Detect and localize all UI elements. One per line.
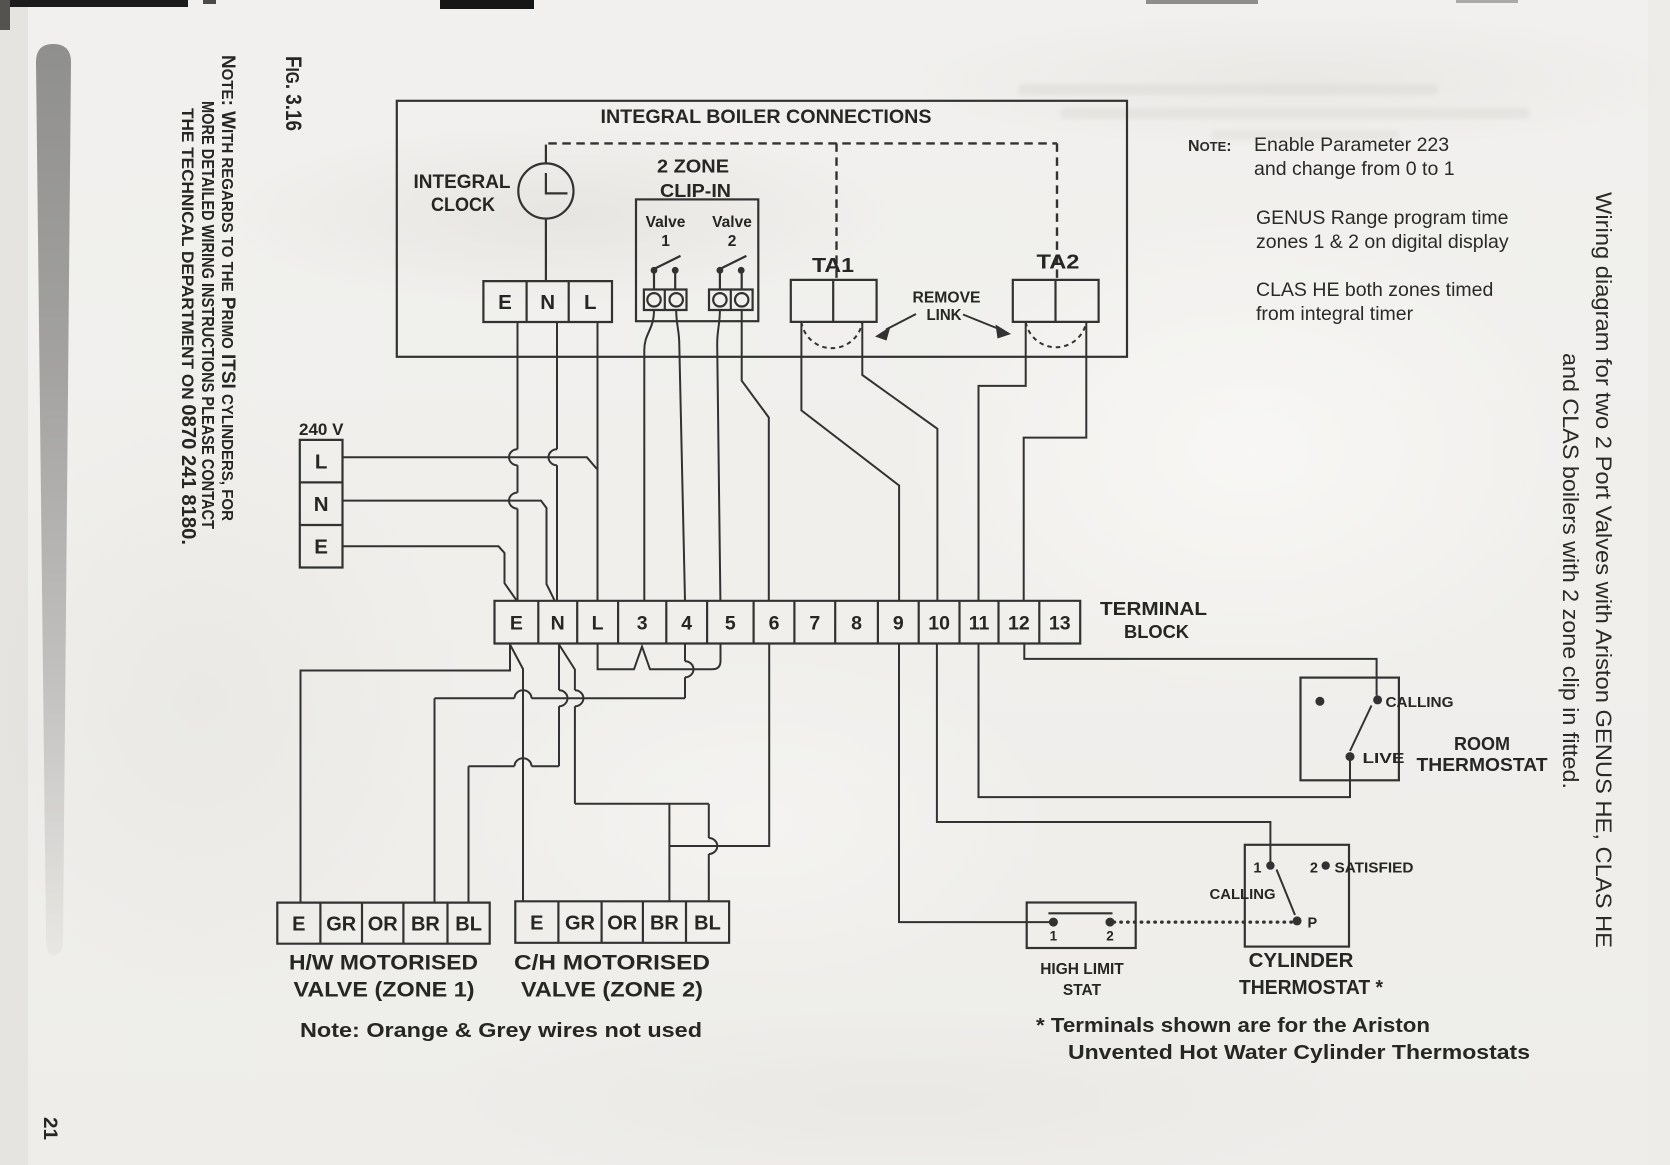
clock hands (546, 173, 568, 193)
svg-text:GR: GR (565, 913, 596, 935)
svg-text:10: 10 (928, 613, 950, 635)
svg-text:CLIP-IN: CLIP-IN (660, 181, 731, 201)
svg-text:Wiring diagram for two 2 Port: Wiring diagram for two 2 Port Valves wit… (1591, 192, 1616, 948)
scan smudge top edge mid (440, 0, 534, 9)
svg-text:Enable Parameter 223: Enable Parameter 223 (1254, 134, 1449, 156)
wire valve2 left to terminal 5 (717, 310, 720, 601)
2 zone clip-in box (636, 199, 758, 321)
svg-text:9: 9 (893, 613, 904, 635)
svg-text:TERMINAL: TERMINAL (1100, 599, 1207, 619)
svg-text:TA2: TA2 (1037, 252, 1080, 274)
wire 240V N to terminal N (343, 501, 555, 601)
svg-text:NOTE: WITH REGARDS TO THE PRI: NOTE: WITH REGARDS TO THE PRIMO ITSI CYL… (217, 55, 239, 521)
svg-text:and CLAS boilers with 2 zone c: and CLAS boilers with 2 zone clip in fit… (1558, 353, 1583, 789)
wire CH valve BR riser (668, 804, 670, 901)
hop arc N wire over BR run (559, 690, 568, 706)
valve 2 switch dots (717, 267, 724, 274)
svg-text:3: 3 (637, 613, 648, 635)
svg-text:FIG. 3.16: FIG. 3.16 (281, 56, 306, 131)
room stat switch arm (1350, 706, 1372, 752)
svg-text:NOTE:: NOTE: (1188, 138, 1232, 155)
high limit stat box (1027, 903, 1136, 949)
valve 1 switch arm (655, 256, 681, 269)
svg-text:CALLING: CALLING (1210, 887, 1276, 903)
wire terminal 10 to cylinder stat 1 (937, 645, 1271, 866)
svg-text:2: 2 (1106, 929, 1114, 944)
hop bump BL run over E wire (515, 758, 532, 766)
dashed drop to TA2 (1056, 143, 1058, 280)
scan smudge top edge small (203, 0, 216, 4)
valve 1 switch dots (651, 267, 658, 274)
svg-text:GR: GR (326, 914, 357, 936)
hop arc 4 wire over jumper (685, 661, 694, 677)
TA1 terminal box (791, 280, 877, 322)
svg-text:HIGH LIMIT: HIGH LIMIT (1040, 961, 1124, 978)
boiler E N L terminal box (483, 281, 612, 322)
svg-text:E: E (498, 291, 512, 314)
svg-text:N: N (540, 291, 555, 314)
svg-text:13: 13 (1049, 613, 1071, 635)
dashed link arc under TA2 (1026, 322, 1087, 347)
svg-text:VALVE (ZONE 1): VALVE (ZONE 1) (294, 978, 475, 1002)
scan smudge top edge right (1146, 0, 1258, 4)
cylinder stat dot 2 (1322, 861, 1330, 869)
wire terminal N to HW valve BL (469, 645, 560, 903)
svg-text:8: 8 (851, 613, 862, 635)
svg-text:INTEGRAL: INTEGRAL (414, 171, 511, 193)
room thermostat box (1301, 678, 1399, 781)
dotted wire high limit stat to cylinder stat P (1114, 920, 1292, 923)
svg-text:SATISFIED: SATISFIED (1335, 861, 1414, 877)
svg-text:Valve: Valve (646, 214, 686, 231)
svg-text:LINK: LINK (927, 307, 962, 324)
svg-text:21: 21 (39, 1117, 60, 1140)
hop bump BR run over E wire (515, 690, 532, 698)
wire TA2 right to terminal 12 (1024, 322, 1087, 601)
svg-text:ROOM: ROOM (1454, 734, 1510, 754)
svg-text:CALLING: CALLING (1386, 695, 1454, 711)
valve 1 switch stubs (654, 274, 675, 291)
svg-text:zones 1 & 2 on digital display: zones 1 & 2 on digital display (1256, 231, 1509, 253)
svg-text:12: 12 (1008, 613, 1030, 635)
cylinder stat switch arm (1277, 870, 1296, 916)
svg-text:C/H MOTORISED: C/H MOTORISED (514, 951, 710, 975)
high limit stat switch bar (1048, 912, 1112, 914)
svg-text:Valve: Valve (712, 214, 752, 231)
remove link arrowhead left (875, 327, 891, 341)
hop arc BL drop over C6 run (709, 838, 718, 854)
svg-text:H/W MOTORISED: H/W MOTORISED (289, 951, 478, 975)
clock stem upper (545, 145, 547, 164)
hop arcs on boiler E wire (509, 449, 518, 508)
wire boiler N down to terminal N (556, 322, 558, 601)
high limit stat dot 2 (1106, 918, 1115, 927)
svg-text:L: L (584, 291, 597, 314)
scan smudge top edge left (0, 0, 188, 7)
wire terminal E to HW valve E (301, 645, 511, 903)
wire valve2 right to terminal 6 (742, 310, 769, 601)
svg-text:P: P (1308, 916, 1318, 932)
wire valve1 left to terminal 3 (644, 310, 654, 601)
terminal block box (495, 601, 1081, 644)
svg-text:STAT: STAT (1063, 982, 1102, 999)
svg-text:4: 4 (681, 613, 692, 635)
valve 2 switch arm (721, 256, 747, 269)
svg-text:BR: BR (411, 914, 440, 936)
svg-text:CLOCK: CLOCK (431, 194, 495, 216)
wire boiler L down to terminal L (597, 322, 599, 601)
wire 240V L to L wire (343, 457, 597, 469)
svg-text:OR: OR (368, 914, 399, 936)
svg-text:E: E (510, 613, 523, 635)
valve 2 terminal box (709, 290, 753, 311)
wire terminal 12 to room stat calling (1024, 645, 1376, 696)
svg-text:2: 2 (1310, 861, 1318, 877)
svg-text:N: N (551, 613, 565, 635)
svg-text:BL: BL (455, 914, 482, 936)
svg-text:E: E (292, 914, 305, 936)
remove link arrow left line (886, 314, 916, 330)
hop arc on boiler N wire (549, 449, 558, 465)
room stat calling dot (1373, 695, 1382, 704)
remove link arrowhead right (996, 325, 1012, 339)
wire boiler E down to terminal E (517, 322, 519, 601)
wire TA1 right to terminal 10 (862, 322, 937, 601)
svg-text:L: L (315, 451, 328, 474)
room stat left dot (1315, 697, 1324, 706)
svg-text:INTEGRAL BOILER CONNECTIONS: INTEGRAL BOILER CONNECTIONS (601, 106, 932, 128)
svg-text:LIVE: LIVE (1363, 751, 1405, 767)
svg-text:MORE DETAILED WIRING INSTRUCTI: MORE DETAILED WIRING INSTRUCTIONS PLEASE… (198, 101, 218, 529)
clock stem lower (545, 219, 547, 282)
dashed link arc under TA1 (801, 322, 862, 348)
valve 1 terminal circles (647, 293, 660, 306)
wire terminal E to CH valve E (510, 645, 523, 902)
svg-text:E: E (314, 536, 328, 559)
svg-text:Unvented Hot Water Cylinder Th: Unvented Hot Water Cylinder Thermostats (1068, 1041, 1530, 1064)
C/H motorised valve box (515, 901, 729, 943)
svg-text:2: 2 (728, 233, 737, 250)
page curl gray bar left (36, 44, 71, 955)
svg-text:E: E (530, 913, 543, 935)
svg-text:1: 1 (661, 233, 670, 250)
wire TA1 left to terminal 9 (801, 322, 899, 601)
svg-text:from integral timer: from integral timer (1256, 303, 1414, 325)
svg-text:N: N (314, 493, 329, 516)
wire valve1 right to terminal 4 (676, 310, 685, 601)
svg-text:TA1: TA1 (812, 255, 854, 277)
svg-text:CYLINDER: CYLINDER (1249, 949, 1354, 972)
wire terminal 6 to CH valve BR (669, 645, 769, 847)
remove link arrow right line (963, 315, 999, 330)
cylinder stat dot P (1293, 916, 1302, 925)
wire terminal N to CH valve BL (559, 645, 709, 902)
svg-text:BR: BR (650, 913, 679, 935)
valve 2 switch stubs (720, 274, 742, 291)
240V supply box (300, 440, 343, 568)
svg-text:CLAS HE both zones timed: CLAS HE both zones timed (1256, 279, 1493, 301)
wire terminal 11 to room stat live (979, 645, 1351, 798)
svg-text:L: L (592, 613, 604, 635)
dashed drop to TA1 (835, 143, 837, 280)
cylinder stat dot 1 (1266, 861, 1274, 869)
svg-text:1: 1 (1050, 929, 1058, 944)
wire terminal 4 to HW valve BR (435, 645, 686, 903)
svg-text:BL: BL (694, 913, 721, 935)
svg-text:THERMOSTAT: THERMOSTAT (1417, 755, 1548, 775)
wire 240V E to terminal E (343, 546, 517, 600)
svg-text:OR: OR (607, 913, 638, 935)
TA2 terminal box (1013, 280, 1099, 322)
svg-text:BLOCK: BLOCK (1124, 622, 1189, 642)
clock circle (518, 163, 573, 218)
jumper wire L-3-5 (598, 645, 721, 670)
wire TA2 left to terminal 11 (979, 322, 1026, 601)
svg-text:7: 7 (809, 613, 820, 635)
svg-text:REMOVE: REMOVE (913, 290, 981, 307)
svg-text:6: 6 (769, 613, 780, 635)
hop arc N2 wire over BR run (575, 690, 584, 706)
ghost bleedthrough text top right (1018, 84, 1530, 140)
room stat live dot (1346, 752, 1355, 761)
svg-text:11: 11 (969, 613, 990, 635)
valve 2 terminal circles (713, 293, 726, 306)
svg-text:1: 1 (1253, 861, 1261, 877)
high limit stat dot 1 (1049, 918, 1058, 927)
svg-text:THERMOSTAT *: THERMOSTAT * (1239, 976, 1383, 999)
H/W motorised valve box (277, 903, 489, 944)
svg-text:THE TECHNICAL DEPARTMENT ON 08: THE TECHNICAL DEPARTMENT ON 0870 241 818… (177, 108, 199, 545)
svg-text:* Terminals shown are for the: * Terminals shown are for the Ariston (1036, 1014, 1430, 1037)
svg-text:240 V: 240 V (299, 420, 344, 439)
svg-text:VALVE (ZONE 2): VALVE (ZONE 2) (521, 978, 703, 1002)
cylinder thermostat box (1245, 845, 1349, 947)
boiler connections outer box (397, 101, 1127, 357)
svg-text:GENUS Range program time: GENUS Range program time (1256, 207, 1509, 229)
wire terminal 9 to high limit stat (899, 645, 1049, 923)
svg-text:and change from 0 to 1: and change from 0 to 1 (1254, 158, 1455, 180)
dashed clock timing line horizontal (548, 142, 1057, 144)
svg-text:Note: Orange & Grey wires not: Note: Orange & Grey wires not used (300, 1019, 702, 1042)
valve 1 terminal box (644, 290, 687, 311)
svg-text:5: 5 (725, 613, 736, 635)
svg-text:2 ZONE: 2 ZONE (657, 157, 729, 177)
